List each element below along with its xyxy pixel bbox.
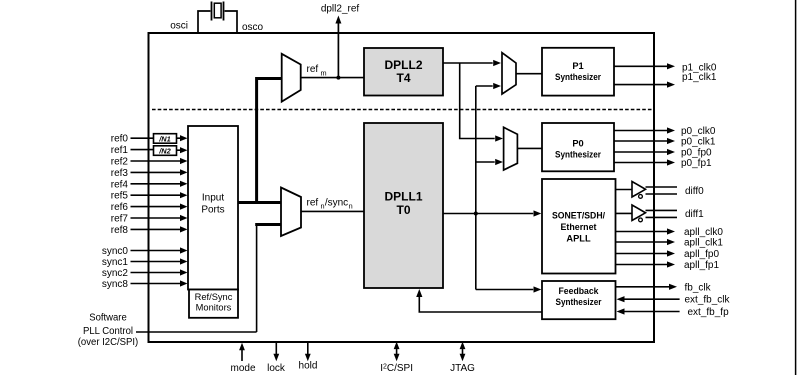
input ref8 [111,225,188,236]
input ref3 [111,168,188,179]
wire mux M4 output to P0 [517,147,542,149]
junction dot ref_m node [336,76,340,80]
svg-text:ref0: ref0 [111,134,129,145]
input ref6 [111,202,188,213]
svg-text:ref5: ref5 [111,191,129,202]
svg-text:apll_fp0: apll_fp0 [684,249,719,260]
svg-text:mode: mode [230,363,255,374]
input ref0 [111,134,188,145]
input sync2 [102,268,188,279]
wire dpll2_ref vertical [337,23,339,78]
block Ref/Sync Monitors [189,290,238,318]
svg-text:diff1: diff1 [685,209,704,220]
svg-text:Synthesizer: Synthesizer [555,149,601,159]
svg-text:ref1: ref1 [111,145,129,156]
wire thick: mux M2 input 2 horizontal [255,223,281,226]
wire mux M1 output to DPLL2 [301,77,364,79]
wire diff1 pair [646,210,678,217]
page border line [795,0,797,375]
svg-text:(over I2C/SPI): (over I2C/SPI) [78,337,139,348]
svg-text:Ref/Sync: Ref/Sync [195,292,233,302]
label Software PLL Control [78,313,139,348]
arrowhead into Feedback Synthesizer [534,286,542,292]
block P1 Synthesizer [542,48,614,96]
svg-text:ext_fb_clk: ext_fb_clk [685,295,731,306]
svg-text:p0_fp1: p0_fp1 [681,158,712,169]
pin mode [230,343,255,374]
wire DPLL2 output to mux M3 [443,62,493,64]
wire mux M2 output to DPLL1 [301,210,364,212]
svg-text:/N1: /N1 [158,134,171,143]
svg-text:apll_clk0: apll_clk0 [684,227,723,238]
diff buffer U1 [632,182,646,198]
svg-text:ref7: ref7 [111,214,129,225]
output apll_fp0 [616,249,720,260]
wire DPLL1 output to APLL [443,213,533,215]
svg-text:Software: Software [89,313,127,324]
svg-text:p0_clk1: p0_clk1 [681,137,716,148]
svg-text:APLL: APLL [566,234,591,244]
dashed divider line [152,109,654,111]
input sync1 [102,257,188,268]
svg-text:dpll2_ref: dpll2_ref [321,3,360,14]
wire APLL to diff buffer U2 [616,212,633,214]
junction dot T0 output node [474,212,478,216]
input sync8 [102,279,188,290]
svg-text:p0_clk0: p0_clk0 [681,126,716,137]
arrowhead into mux M3 input 2 [493,83,501,89]
wire T0 distribution vertical [475,86,477,290]
input ext_fb_clk [617,295,731,306]
svg-text:sync0: sync0 [102,246,129,257]
pin I2C/SPI bidirectional [380,342,413,374]
svg-text:T0: T0 [396,203,410,217]
input ref1 [111,145,188,156]
input ref5 [111,191,188,202]
svg-text:osci: osci [170,21,188,32]
wire feedback synthesizer to DPLL1 [419,297,542,313]
crystal Y1 left leg wire [198,11,210,34]
svg-text:ref2: ref2 [111,157,129,168]
crystal Y1 right leg wire [225,11,237,34]
svg-text:DPLL1: DPLL1 [384,190,422,204]
divider /N2 [154,146,177,156]
block Feedback Synthesizer [542,281,616,319]
mux M3 (P1 source mux) [502,53,516,94]
svg-text:osco: osco [242,22,264,33]
wire thick: Input Ports output to mux M2 input 1 [238,201,281,204]
arrowhead dpll2_ref up [335,16,341,24]
svg-text:ref4: ref4 [111,179,129,190]
block Input Ports [188,126,238,290]
crystal Y1 right plate [223,2,225,21]
outer device box [149,33,655,342]
svg-text:Input: Input [202,193,224,204]
svg-text:I2C/SPI: I2C/SPI [380,363,413,374]
output p0_clk1 [614,137,716,148]
block DPLL1 T0 [364,123,443,288]
pin lock [267,342,286,374]
input ext_fb_fp [617,307,730,318]
block DPLL2 T4 [364,48,443,96]
svg-text:p1_clk1: p1_clk1 [682,72,717,83]
svg-text:ext_fb_fp: ext_fb_fp [688,307,730,318]
svg-text:apll_fp1: apll_fp1 [684,260,719,271]
svg-text:fb_clk: fb_clk [685,282,712,293]
wire mux M3 output to P1 [516,73,542,75]
svg-text:sync8: sync8 [102,279,129,290]
wire T0 to mux M4 input 2 [476,161,495,163]
bubble U1 inverting output [639,195,643,199]
block P0 Synthesizer [542,123,614,171]
svg-text:sync2: sync2 [102,268,129,279]
diff buffer U2 [632,205,646,221]
wire T0 to Feedback Synthesizer [476,289,533,291]
svg-text:DPLL2: DPLL2 [384,58,422,72]
svg-text:ref8: ref8 [111,225,129,236]
wire DPLL2 branch down to mux M4 input 1 [460,63,495,139]
svg-text:ref6: ref6 [111,202,129,213]
pin JTAG bidirectional [450,342,475,374]
output apll_clk1 [616,238,724,249]
divider /N1 [154,134,177,144]
svg-text:Feedback: Feedback [559,286,600,296]
input ref2 [111,157,188,168]
crystal Y1 body [214,3,221,18]
output apll_clk0 [616,227,724,238]
mux M4 (P0 source mux) [504,127,518,170]
arrowhead into APLL [534,210,542,216]
output p1_clk1 [614,72,717,88]
wire software control [136,331,257,333]
arrowhead into mux M4 input 2 [495,159,503,165]
svg-text:p0_fp0: p0_fp0 [681,148,712,159]
svg-text:sync1: sync1 [102,257,129,268]
crystal Y1 left plate [211,2,213,21]
wire thick: branch up to mux M1 input [257,79,282,205]
svg-text:P1: P1 [572,61,583,71]
arrowhead into DPLL1 bottom [416,289,422,297]
output p0_fp1 [614,158,712,169]
svg-text:lock: lock [267,363,286,374]
svg-text:T4: T4 [396,71,410,85]
input sync0 [102,246,188,257]
svg-text:hold: hold [299,360,318,371]
svg-text:PLL Control: PLL Control [83,326,133,337]
pin hold [299,342,318,371]
output apll_fp1 [616,260,720,271]
wire APLL to diff buffer U1 [616,189,633,191]
wire diff0 pair [646,187,678,194]
output p1_clk0 [614,62,717,73]
arrowhead into mux M3 input 1 [493,60,501,66]
svg-text:SONET/SDH/: SONET/SDH/ [552,211,605,221]
svg-text:apll_clk1: apll_clk1 [684,238,723,249]
svg-text:/N2: /N2 [158,146,171,155]
mux M2 (DPLL1 reference mux) [281,188,301,237]
wire: software control vertical up to mux M2 input 2 [256,226,258,333]
svg-text:Monitors: Monitors [196,303,232,313]
svg-text:ref3: ref3 [111,168,129,179]
svg-text:JTAG: JTAG [450,363,475,374]
svg-text:diff0: diff0 [685,186,704,197]
bubble U2 inverting output [639,218,643,222]
output fb_clk [616,282,712,293]
output p0_clk0 [614,126,716,137]
svg-text:Synthesizer: Synthesizer [556,297,602,307]
output p0_fp0 [614,148,712,159]
svg-text:P0: P0 [572,138,583,148]
arrowhead into mux M4 input 1 [495,135,503,141]
wire T0 to mux M3 input 2 [476,85,493,87]
svg-text:Ethernet: Ethernet [561,222,597,232]
svg-text:Ports: Ports [201,205,224,216]
input ref4 [111,179,188,190]
svg-text:Synthesizer: Synthesizer [555,72,601,82]
block SONET/SDH/Ethernet APLL [542,179,616,274]
mux M1 (DPLL2 reference mux) [282,54,301,102]
input ref7 [111,214,188,225]
